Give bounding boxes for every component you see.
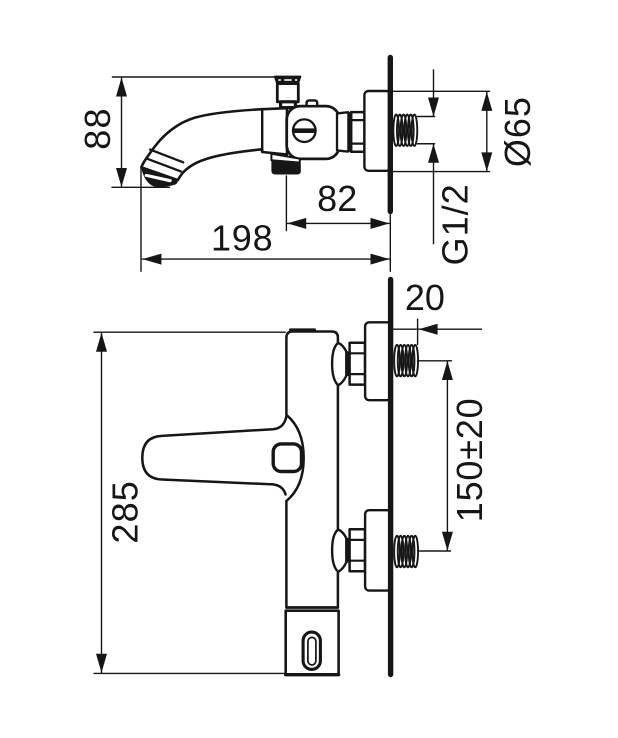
arrow 82 right — [371, 218, 390, 229]
diverter cap white dashes — [278, 79, 297, 81]
dim line 285 — [101, 332, 103, 673]
union nut block — [351, 112, 364, 152]
svg-text:198: 198 — [211, 218, 273, 259]
arrow 285 down — [96, 654, 107, 673]
connector neck (valve to union nut) — [337, 112, 348, 151]
shower outlet flange — [271, 154, 299, 163]
diverter stem — [277, 84, 298, 102]
arrow 82 left — [287, 218, 306, 229]
ext line wall (198/82) — [389, 214, 391, 271]
handle button — [273, 444, 301, 472]
svg-text:Ø65: Ø65 — [497, 96, 538, 167]
upper nut facet lines — [350, 352, 365, 354]
dim line 20 — [394, 328, 482, 330]
union nut facet lines — [351, 119, 364, 121]
arrow 150 up — [442, 361, 453, 380]
ext line upper threads (150) — [418, 360, 452, 362]
threaded nipple (top view) — [393, 115, 417, 147]
arrow 198 left — [142, 254, 161, 265]
lower eccentric union — [332, 530, 346, 572]
arrow Ø65 up — [481, 92, 492, 111]
arrow 150 down — [442, 532, 453, 551]
ext line outlet (82) — [285, 176, 287, 231]
dim line 88 — [121, 77, 123, 187]
ext line lower threads (150) — [418, 550, 451, 552]
dim line 150 — [446, 361, 448, 551]
dim line 198 — [142, 258, 389, 260]
valve body (rounded square) — [287, 106, 340, 159]
upper nut — [350, 343, 365, 385]
lower union black bar — [346, 538, 349, 563]
svg-text:285: 285 — [104, 480, 145, 544]
svg-text:150±20: 150±20 — [449, 398, 490, 523]
nipple shank lines — [418, 116, 435, 118]
outlet slot inner — [308, 637, 316, 665]
arrow Ø65 down — [481, 152, 492, 171]
svg-text:88: 88 — [77, 107, 118, 149]
valve top tab — [307, 100, 318, 106]
body bottom divider — [286, 606, 338, 609]
dim line Ø65 — [486, 92, 488, 171]
G1/2 leader upper — [433, 70, 435, 117]
diverter joint — [281, 102, 296, 108]
svg-text:20: 20 — [405, 277, 445, 318]
arrow 285 up — [96, 333, 107, 352]
upper union black bar — [346, 351, 349, 376]
outlet slot outer — [303, 632, 320, 669]
spout aerator white stripe — [146, 175, 170, 180]
ext tick 20 — [417, 319, 419, 344]
spout band line 1 — [150, 150, 183, 163]
G1/2 leader lower — [433, 144, 435, 244]
arrow G1/2 down — [428, 98, 439, 117]
ext line left (198) — [140, 168, 142, 272]
union nut black bar — [348, 112, 352, 152]
ext line bottom (285) — [94, 672, 285, 674]
upper wall rosette — [365, 322, 391, 400]
upper threads — [394, 345, 418, 377]
spout band line 2 — [147, 159, 181, 172]
ext line rosette top (Ø65) — [366, 90, 490, 92]
body top tab — [289, 328, 316, 333]
spout aerator (black nozzle) — [142, 167, 178, 187]
valve screw slot — [293, 128, 315, 133]
svg-text:G1/2: G1/2 — [434, 183, 475, 265]
wall line (top view) — [388, 58, 393, 212]
lever handle — [142, 415, 286, 494]
arrow 88 down — [116, 168, 127, 187]
lower threads — [394, 536, 418, 568]
ext line top (285) — [94, 331, 285, 333]
diverter knob cap — [274, 76, 301, 84]
wall line (bottom view) — [388, 280, 393, 675]
ext line top (88) — [112, 76, 300, 78]
spout body outline — [141, 108, 287, 180]
ext line rosette bottom (Ø65) — [388, 171, 490, 173]
spout joint vertical line — [261, 109, 263, 152]
lower nut — [350, 529, 365, 571]
wall rosette (side view) — [364, 91, 390, 171]
dim line 82 — [287, 222, 389, 224]
spout section (front, lower) — [286, 611, 339, 675]
arrow G1/2 up — [428, 144, 439, 163]
arrow 198 right — [371, 254, 390, 265]
arrow 20 left — [419, 324, 438, 335]
upper eccentric union — [332, 343, 346, 385]
body outline — [286, 332, 338, 608]
shower outlet nut (black) — [271, 161, 300, 175]
svg-text:82: 82 — [317, 178, 357, 219]
valve screw circle — [293, 119, 316, 142]
lower nut facet lines — [350, 539, 365, 541]
arrow 88 up — [116, 78, 127, 97]
lower wall rosette — [365, 510, 391, 590]
ext line bottom (88) — [112, 186, 170, 188]
